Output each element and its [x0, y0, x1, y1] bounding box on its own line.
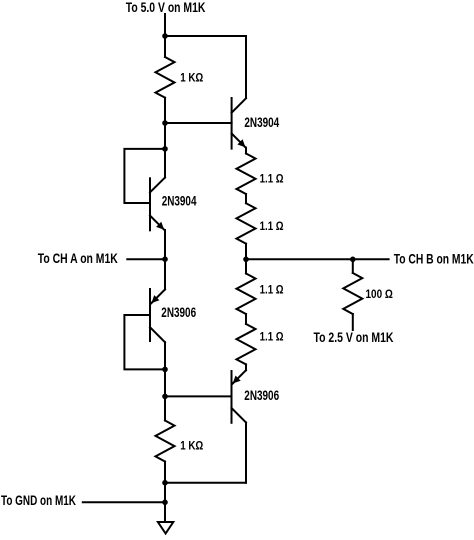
svg-text:1.1 Ω: 1.1 Ω [260, 219, 284, 233]
wire 100 ohm top lead [352, 259, 354, 273]
junction dot Q3 base-collector tie [162, 367, 168, 373]
svg-text:2N3904: 2N3904 [244, 115, 279, 130]
svg-text:1.1 Ω: 1.1 Ω [260, 283, 284, 297]
svg-text:1 KΩ: 1 KΩ [180, 438, 203, 452]
wire top rail horizontal [165, 35, 246, 37]
resistor R1 1 K ohm (top) [156, 57, 175, 98]
wire left rail Q2 emitter to CH A node [164, 230, 166, 289]
svg-text:2N3906: 2N3906 [161, 305, 196, 320]
svg-text:To 2.5 V on M1K: To 2.5 V on M1K [314, 330, 394, 345]
wire GND horizontal [83, 501, 165, 503]
junction dot bottom node [162, 480, 168, 486]
svg-text:To CH B on M1K: To CH B on M1K [394, 251, 474, 266]
resistor R3 1.1 ohm [237, 203, 256, 244]
wire R2-R3 lead [245, 194, 247, 203]
junction dot GND node [162, 500, 168, 506]
resistor R4 1.1 ohm [237, 274, 256, 315]
wire Q3 feedback loop (base to collector) [124, 315, 165, 369]
svg-text:1.1 Ω: 1.1 Ω [260, 330, 284, 344]
wire right rail down to Q1 collector [245, 36, 247, 98]
junction dot CH A node [162, 256, 168, 262]
wire Q2 feedback loop (collector to base) [124, 149, 165, 203]
wire R1 top lead [164, 36, 166, 57]
transistor Q3 2N3906 (PNP, diode-connected, left) [150, 289, 165, 342]
junction dot 100 ohm tap [350, 257, 356, 263]
junction dot Q1 base node [162, 120, 168, 126]
wire left rail Q3 collector down [164, 342, 166, 420]
wire R3 to CH B node [245, 244, 247, 260]
wire 100 ohm bottom lead [352, 314, 354, 330]
wire CH A horizontal [127, 258, 165, 260]
transistor Q1 2N3904 (NPN, top right) [232, 98, 246, 149]
wire Q1 emitter lead into R2 [245, 148, 247, 154]
wire R5 bottom lead to Q4 emitter [245, 364, 247, 370]
svg-text:100 Ω: 100 Ω [366, 287, 394, 301]
transistor Q4 2N3906 (PNP, bottom right) [232, 370, 247, 423]
svg-text:To 5.0 V on M1K: To 5.0 V on M1K [126, 0, 206, 15]
svg-text:To CH A on M1K: To CH A on M1K [38, 251, 118, 266]
resistor R6 100 ohm [343, 273, 362, 314]
wire Q4 collector down [245, 423, 247, 483]
junction dot top supply node [162, 33, 168, 39]
svg-text:2N3904: 2N3904 [162, 194, 197, 209]
resistor R5 1.1 ohm [237, 324, 256, 364]
ground symbol [158, 522, 173, 534]
junction dot CH B node on chain [243, 257, 249, 263]
svg-text:2N3906: 2N3906 [244, 388, 279, 403]
wire R4-R5 lead [245, 314, 247, 324]
junction dot Q2 base-collector tie [162, 146, 168, 152]
wire left rail from base node to Q2 collector [164, 123, 166, 178]
resistor R2 1.1 ohm [237, 154, 256, 195]
svg-text:1.1 Ω: 1.1 Ω [260, 171, 284, 185]
wire R7 bottom lead [164, 462, 166, 503]
resistor R7 1 K ohm (bottom) [156, 421, 175, 462]
wire CH B node into R4 [245, 259, 247, 273]
wire R1 bottom lead to base node [164, 98, 166, 123]
wire down to ground symbol [164, 502, 166, 522]
svg-text:1 KΩ: 1 KΩ [180, 70, 203, 84]
wire CH B horizontal [246, 258, 389, 260]
wire 5V label to top rail [164, 14, 166, 36]
wire Q1 base wire [165, 122, 232, 124]
junction dot Q4 base node [162, 394, 168, 400]
svg-text:To GND on M1K: To GND on M1K [1, 493, 76, 508]
wire bottom horizontal Q4 collector to rail [165, 482, 246, 484]
transistor Q2 2N3904 (NPN, diode-connected, left) [150, 178, 165, 231]
wire Q4 base wire [165, 395, 232, 397]
